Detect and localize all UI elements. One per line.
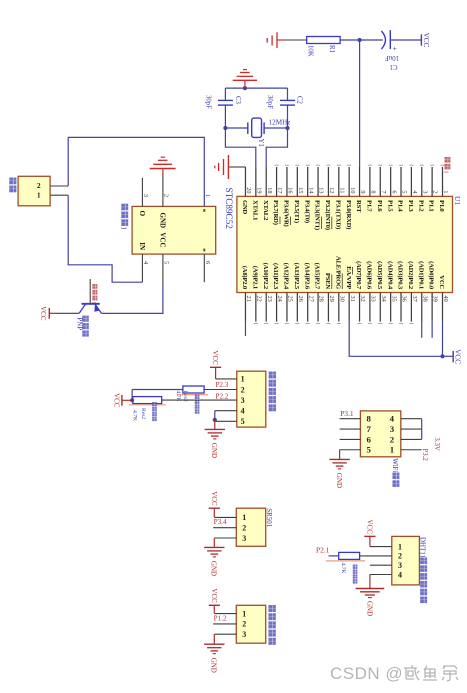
module D pin2 wire upper xyxy=(360,555,392,557)
U1 pin 36 open-end tick xyxy=(399,322,403,324)
svg-text:WiFi: WiFi xyxy=(391,458,399,472)
module D pin4 wire xyxy=(370,574,392,576)
svg-text:(AD0)P0.0: (AD0)P0.0 xyxy=(428,261,435,290)
U1 pin 20 wire xyxy=(244,167,246,196)
U1 pin 35 wire xyxy=(390,293,392,322)
module B top pin 3 wire xyxy=(401,428,422,430)
U1 pin 38 wire xyxy=(421,293,423,322)
resistor Res2 lower 4.7K xyxy=(133,397,162,404)
svg-text:1: 1 xyxy=(241,375,245,384)
svg-text:PSEN: PSEN xyxy=(324,273,331,290)
module A pin1 wire xyxy=(216,378,237,380)
capacitor C3 30pF xyxy=(218,99,233,101)
svg-text:VCC: VCC xyxy=(438,275,445,289)
svg-text:2: 2 xyxy=(241,385,245,394)
svg-text:5: 5 xyxy=(401,190,408,193)
module A pin3 wire upper xyxy=(162,399,237,401)
U1 pin 2 open-end tick xyxy=(430,164,434,166)
svg-text:VCC: VCC xyxy=(365,519,373,534)
resistor Res2 lower underline xyxy=(129,404,166,406)
svg-text:VCC: VCC xyxy=(454,349,462,364)
U1 pin 4 wire xyxy=(410,167,412,196)
svg-text:PNP: PNP xyxy=(75,317,83,330)
svg-text:2: 2 xyxy=(242,524,246,533)
relay pin1 edge mark xyxy=(203,209,205,212)
U1 pin 16 open-end tick xyxy=(285,164,289,166)
svg-text:P1.2: P1.2 xyxy=(214,615,227,623)
svg-text:GND: GND xyxy=(241,200,248,215)
ground symbol module A xyxy=(214,420,216,430)
U1 pin 7 open-end tick xyxy=(378,164,382,166)
svg-text:8: 8 xyxy=(370,190,377,193)
module E label xyxy=(268,605,275,612)
svg-text:23: 23 xyxy=(266,296,273,302)
svg-text:(AD5)P0.5: (AD5)P0.5 xyxy=(376,261,383,290)
svg-text:GND: GND xyxy=(335,473,343,488)
U1 pin 25 open-end tick xyxy=(285,322,289,324)
svg-text:P2.3: P2.3 xyxy=(216,381,229,389)
U1 pin 22 open-end tick xyxy=(254,322,258,324)
U1 pin 15 wire xyxy=(296,167,298,196)
U1 pin 6 wire xyxy=(390,167,392,196)
svg-text:(A10)P2.2: (A10)P2.2 xyxy=(262,263,269,290)
svg-text:7: 7 xyxy=(380,190,387,193)
svg-text:EA/VPP: EA/VPP xyxy=(345,266,352,289)
U1 pin 1 open-end tick xyxy=(441,164,445,166)
svg-text:GND: GND xyxy=(365,601,373,616)
svg-text:6: 6 xyxy=(390,190,397,193)
svg-text:STC89C52: STC89C52 xyxy=(224,188,234,230)
wire pullup junction xyxy=(131,390,133,401)
U1 pin 24 wire xyxy=(276,293,278,322)
svg-text:3: 3 xyxy=(421,190,428,193)
svg-text:P3.2(INT0): P3.2(INT0) xyxy=(324,200,331,230)
ground symbol module B pin5 xyxy=(339,450,341,460)
power VCC module E xyxy=(213,605,215,613)
U1 pin 21 wire xyxy=(244,293,246,322)
U1 pin 8 open-end tick xyxy=(368,164,372,166)
U1 pin 35 open-end tick xyxy=(389,322,393,324)
svg-text:35: 35 xyxy=(390,296,397,302)
svg-text:VCC: VCC xyxy=(39,306,47,321)
resistor Res2 upper labels xyxy=(195,395,200,399)
svg-text:31: 31 xyxy=(349,296,356,302)
ground symbol relay pin2 xyxy=(162,169,164,175)
svg-text:27: 27 xyxy=(307,296,314,302)
module A pin5 wire xyxy=(215,420,237,422)
svg-text:GND: GND xyxy=(210,561,218,576)
svg-text:P1.7: P1.7 xyxy=(366,200,373,212)
capacitor C1 10uF xyxy=(389,30,391,49)
svg-text:(A14)P2.6: (A14)P2.6 xyxy=(303,263,310,290)
svg-text:P3.1: P3.1 xyxy=(340,409,354,418)
svg-text:P3.6(WR): P3.6(WR) xyxy=(283,200,290,227)
U1 pin 34 wire xyxy=(379,293,381,322)
watermark CSDN xyxy=(330,664,459,684)
svg-text:4: 4 xyxy=(142,261,149,265)
svg-text:9: 9 xyxy=(359,190,366,193)
relay pin6 edge mark xyxy=(203,249,205,252)
U1 pin 13 wire xyxy=(317,167,319,196)
svg-text:19: 19 xyxy=(255,187,262,193)
power VCC symbol transistor xyxy=(49,312,56,314)
svg-text:28: 28 xyxy=(318,296,325,302)
U1 pin 29 wire xyxy=(327,293,329,322)
svg-text:P2.2: P2.2 xyxy=(216,392,229,400)
U1 pin 19 wire xyxy=(255,167,257,196)
svg-text:7: 7 xyxy=(366,424,371,434)
U1 pin 6 open-end tick xyxy=(389,164,393,166)
svg-text:39: 39 xyxy=(432,296,439,302)
svg-text:2: 2 xyxy=(432,190,439,193)
module A label xyxy=(269,372,276,379)
U1 pin 7 wire xyxy=(379,167,381,196)
svg-text:1: 1 xyxy=(442,190,449,193)
U1 pin 27 open-end tick xyxy=(306,322,310,324)
svg-text:1: 1 xyxy=(37,190,41,199)
svg-text:(A15)P2.7: (A15)P2.7 xyxy=(314,263,321,290)
junction crystal top xyxy=(285,126,289,130)
svg-text:30: 30 xyxy=(338,296,345,302)
junction RST node xyxy=(358,38,362,42)
module A pin4 wire xyxy=(215,410,237,412)
U1 pin 24 open-end tick xyxy=(275,322,279,324)
svg-text:IN: IN xyxy=(138,242,146,250)
svg-text:3.3V: 3.3V xyxy=(433,437,440,450)
U1 pin 8 wire xyxy=(369,167,371,196)
svg-text:(AD7)P0.7: (AD7)P0.7 xyxy=(355,261,362,290)
resistor R1 10K xyxy=(307,37,340,44)
module E flame sensor box xyxy=(236,605,265,643)
svg-text:C1: C1 xyxy=(390,63,398,70)
U1 pin 13 open-end tick xyxy=(316,164,320,166)
svg-text:18: 18 xyxy=(266,187,273,193)
svg-text:10: 10 xyxy=(349,187,356,193)
svg-text:(A13)P2.5: (A13)P2.5 xyxy=(293,263,300,290)
connector label xyxy=(9,178,16,185)
ground symbol reset xyxy=(277,39,286,41)
relay label blue xyxy=(121,204,128,211)
svg-text:4: 4 xyxy=(241,407,245,416)
svg-text:4: 4 xyxy=(411,190,418,194)
transistor red net label xyxy=(92,284,97,289)
svg-text:4: 4 xyxy=(398,570,402,579)
U1 pin 28 wire xyxy=(317,293,319,322)
wire pin39 blue extension xyxy=(431,322,433,338)
wire pin31 EA to VCC rail xyxy=(349,322,442,357)
svg-text:1: 1 xyxy=(119,227,127,231)
svg-text:16: 16 xyxy=(287,187,294,193)
U1 pin 4 open-end tick xyxy=(409,164,413,166)
U1 pin 27 wire xyxy=(307,293,309,322)
svg-text:VCC: VCC xyxy=(112,393,120,408)
wire XTAL1 to pin19 xyxy=(225,128,255,167)
wire XTAL2 to pin18 xyxy=(266,128,287,167)
power VCC module A pin1 xyxy=(215,367,217,379)
U1 pin 25 wire xyxy=(286,293,288,322)
U1 pin 23 wire xyxy=(265,293,267,322)
module B bottom pin 7 wire xyxy=(340,428,361,430)
U1 pin 12 open-end tick xyxy=(326,164,330,166)
wire XTAL rail C2 row xyxy=(287,88,289,100)
svg-text:5: 5 xyxy=(241,417,245,426)
svg-text:P3.7(RD): P3.7(RD) xyxy=(272,200,279,225)
svg-text:C2: C2 xyxy=(296,96,303,105)
connector box xyxy=(18,176,50,206)
module B top pin 4 wire xyxy=(401,418,422,420)
svg-text:VCC: VCC xyxy=(210,491,218,506)
U1 pin 5 wire xyxy=(400,167,402,196)
svg-text:P2.1: P2.1 xyxy=(316,545,330,554)
power VCC module D xyxy=(369,536,371,546)
svg-text:22: 22 xyxy=(255,296,262,302)
resistor pullup DHT11 4.7K xyxy=(339,552,360,559)
svg-text:P3.0(RXD): P3.0(RXD) xyxy=(345,200,352,229)
svg-text:4.7K: 4.7K xyxy=(340,563,346,574)
power VCC module C xyxy=(213,508,215,517)
svg-text:36: 36 xyxy=(401,296,408,302)
svg-text:1: 1 xyxy=(398,542,402,551)
svg-text:3: 3 xyxy=(398,561,402,570)
svg-text:GND: GND xyxy=(158,213,166,229)
U1 pin 26 open-end tick xyxy=(295,322,299,324)
U1 pin 28 open-end tick xyxy=(316,322,320,324)
svg-text:P1.5: P1.5 xyxy=(386,200,393,212)
svg-text:R1: R1 xyxy=(328,45,335,53)
relay pin3 wire xyxy=(141,178,143,207)
resistor Res2 upper 4.7K xyxy=(183,386,204,393)
svg-text:GND: GND xyxy=(210,443,218,458)
svg-text:1: 1 xyxy=(390,445,394,455)
U1 pin 14 wire xyxy=(307,167,309,196)
svg-text:VCC: VCC xyxy=(210,588,218,603)
svg-text:C3: C3 xyxy=(234,96,241,105)
svg-text:2: 2 xyxy=(163,194,170,197)
svg-text:29: 29 xyxy=(328,296,335,302)
svg-text:Y1: Y1 xyxy=(257,139,264,147)
U1 pin 16 wire xyxy=(286,167,288,196)
svg-text:3: 3 xyxy=(390,424,395,434)
wire pin40 VCC xyxy=(442,322,444,357)
junction pin40 VCC xyxy=(440,354,444,358)
module B bottom pin 5 wire xyxy=(340,449,361,451)
svg-text:P3.2: P3.2 xyxy=(421,449,428,462)
U1 pin 26 wire xyxy=(296,293,298,322)
module D pin2 wire lower xyxy=(329,555,339,557)
module B WiFi box xyxy=(360,411,400,457)
svg-text:(A8)P2.0: (A8)P2.0 xyxy=(241,266,248,290)
module A pin2 wire lower xyxy=(132,389,183,391)
svg-text:(A11)P2.3: (A11)P2.3 xyxy=(272,263,279,290)
svg-text:40: 40 xyxy=(442,296,449,302)
svg-text:(AD1)P0.1: (AD1)P0.1 xyxy=(417,261,424,289)
U1 pin 1 red net label xyxy=(445,157,451,163)
svg-text:10K: 10K xyxy=(307,45,314,57)
IC U1 STC89C52 body xyxy=(237,196,453,292)
module E pin1 wire xyxy=(214,613,236,615)
svg-text:O: O xyxy=(138,211,146,217)
svg-text:11: 11 xyxy=(338,187,345,193)
U1 pin 36 wire xyxy=(400,293,402,322)
svg-text:6: 6 xyxy=(204,261,211,264)
U1 pin 31 wire xyxy=(348,293,350,322)
svg-text:5: 5 xyxy=(366,445,371,455)
ground symbol crystal xyxy=(244,80,246,88)
U1 pin 30 open-end tick xyxy=(337,322,341,324)
resistor Res2 lower labels xyxy=(152,402,157,406)
svg-text:5: 5 xyxy=(163,261,170,264)
svg-text:1: 1 xyxy=(442,171,449,174)
svg-text:6: 6 xyxy=(366,434,371,444)
wire C1 to junction xyxy=(360,39,383,41)
resistor pullup DHT11 underline xyxy=(326,560,365,562)
svg-text:20: 20 xyxy=(245,187,252,193)
svg-text:24: 24 xyxy=(276,296,283,303)
module A smoke sensor box xyxy=(237,371,266,427)
module B top pin 1 wire xyxy=(401,449,422,451)
svg-text:GND: GND xyxy=(210,658,218,673)
svg-text:15: 15 xyxy=(297,187,304,193)
svg-text:21: 21 xyxy=(245,296,252,302)
U1 pin 15 open-end tick xyxy=(295,164,299,166)
U1 pin 12 wire xyxy=(327,167,329,196)
wire XTAL rail C3 row xyxy=(224,88,226,100)
svg-text:14: 14 xyxy=(307,187,314,194)
U1 pin 1 wire xyxy=(442,167,444,196)
svg-text:VCC: VCC xyxy=(422,33,430,48)
svg-text:33: 33 xyxy=(370,296,377,302)
svg-text:8: 8 xyxy=(366,414,371,424)
svg-text:P1.0: P1.0 xyxy=(438,200,445,212)
power VCC symbol at pin40 xyxy=(443,355,454,357)
module E pin3 wire xyxy=(214,633,236,635)
svg-text:12: 12 xyxy=(328,187,335,193)
U1 pin 9 wire xyxy=(359,167,361,196)
svg-text:Res2: Res2 xyxy=(140,408,146,419)
module B bottom pin 6 wire xyxy=(340,438,361,440)
svg-text:13: 13 xyxy=(318,187,325,193)
svg-text:P1.6: P1.6 xyxy=(376,200,383,212)
svg-text:4: 4 xyxy=(390,414,395,424)
U1 pin 29 open-end tick xyxy=(326,322,330,324)
svg-text:P3.4: P3.4 xyxy=(214,518,227,526)
svg-text:26: 26 xyxy=(297,296,304,302)
junction crystal bottom xyxy=(223,126,227,130)
wire relay pin4 to connector pin1 xyxy=(68,195,142,282)
relay pin5 wire xyxy=(162,254,164,285)
wire R1 to ground xyxy=(286,39,307,41)
ground symbol module D xyxy=(369,575,371,589)
wire pin20 GND drop xyxy=(231,166,246,168)
relay pin4 wire xyxy=(141,254,143,282)
junction crystal gnd tap xyxy=(243,86,247,90)
svg-text:1: 1 xyxy=(204,194,211,197)
ground symbol module C xyxy=(213,538,215,547)
module D DHT11 box xyxy=(392,536,420,585)
svg-text:34: 34 xyxy=(380,296,387,303)
relay pin6 wire xyxy=(203,254,205,282)
svg-text:P1.3: P1.3 xyxy=(407,200,414,212)
svg-text:XTAL1: XTAL1 xyxy=(251,200,258,220)
svg-text:10uF: 10uF xyxy=(385,54,399,61)
module C pin2 wire xyxy=(213,527,236,529)
crystal Y1 12MHz xyxy=(264,127,287,129)
wire pin21 P2.0 blue extension xyxy=(244,322,246,336)
module D pin3 wire xyxy=(370,564,392,566)
transistor Q PNP base wire xyxy=(89,279,91,304)
U1 pin 10 wire xyxy=(348,167,350,196)
transistor Q PNP symbol xyxy=(82,303,100,305)
junction module A gnd xyxy=(213,418,217,422)
svg-text:2: 2 xyxy=(37,181,41,190)
U1 pin 2 wire xyxy=(431,167,433,196)
U1 pin 39 wire xyxy=(431,293,433,322)
wire 3.3V bracket pins 4-2 xyxy=(421,419,423,440)
wire crystal ground rail xyxy=(225,87,287,89)
wire transistor emitter to VCC xyxy=(57,312,80,314)
U1 pin 11 wire xyxy=(338,167,340,196)
svg-text:3: 3 xyxy=(241,396,245,405)
wire junction to R1 xyxy=(340,39,360,41)
U1 pin 32 wire xyxy=(359,293,361,322)
U1 pin 30 wire xyxy=(338,293,340,322)
svg-text:XTAL2: XTAL2 xyxy=(262,200,269,221)
U1 pin 34 open-end tick xyxy=(378,322,382,324)
svg-text:+: + xyxy=(391,47,399,51)
U1 pin 5 open-end tick xyxy=(399,164,403,166)
svg-text:(AD6)P0.6: (AD6)P0.6 xyxy=(366,261,373,290)
U1 pin 37 open-end tick xyxy=(409,322,413,324)
svg-text:3: 3 xyxy=(142,194,149,197)
svg-text:ALE/PROG: ALE/PROG xyxy=(334,256,341,289)
junction pullup VCC xyxy=(130,398,134,402)
svg-text:1: 1 xyxy=(242,609,246,618)
svg-text:30pF: 30pF xyxy=(266,95,273,109)
svg-text:VCC: VCC xyxy=(211,350,219,365)
svg-text:DHT11: DHT11 xyxy=(419,537,427,559)
module B top pin 2 wire xyxy=(401,438,422,440)
relay box xyxy=(132,206,216,254)
svg-text:2: 2 xyxy=(242,620,246,629)
svg-text:P1.4: P1.4 xyxy=(397,200,404,212)
power VCC module A pullups xyxy=(122,399,132,401)
svg-text:P3.5(T1): P3.5(T1) xyxy=(293,200,300,223)
svg-text:2: 2 xyxy=(398,552,402,561)
svg-text:(A12)P2.4: (A12)P2.4 xyxy=(283,263,290,290)
wire relay pin5 to transistor collector xyxy=(101,285,163,313)
svg-text:38: 38 xyxy=(421,296,428,302)
svg-text:P1.2: P1.2 xyxy=(417,200,424,212)
module D pin1 wire xyxy=(370,546,392,548)
U1 pin 33 open-end tick xyxy=(368,322,372,324)
U1 pin 23 open-end tick xyxy=(264,322,268,324)
svg-text:(AD2)P0.2: (AD2)P0.2 xyxy=(407,261,414,290)
connector pin1 stub xyxy=(50,194,68,196)
svg-text:17: 17 xyxy=(276,187,283,193)
ground symbol module E xyxy=(213,634,215,644)
U1 pin 10 open-end tick xyxy=(347,164,351,166)
svg-text:P3.1(TXD): P3.1(TXD) xyxy=(334,200,341,229)
relay pin2 wire xyxy=(162,175,164,206)
svg-text:25: 25 xyxy=(287,296,294,302)
svg-text:P3.4(T0): P3.4(T0) xyxy=(303,200,310,223)
svg-text:(AD4)P0.4: (AD4)P0.4 xyxy=(386,261,393,290)
U1 pin 3 wire xyxy=(421,167,423,196)
U1 pin 22 wire xyxy=(255,293,257,322)
module A pin2 wire upper xyxy=(204,389,237,391)
U1 pin 17 wire xyxy=(276,167,278,196)
U1 pin 32 open-end tick xyxy=(358,322,362,324)
